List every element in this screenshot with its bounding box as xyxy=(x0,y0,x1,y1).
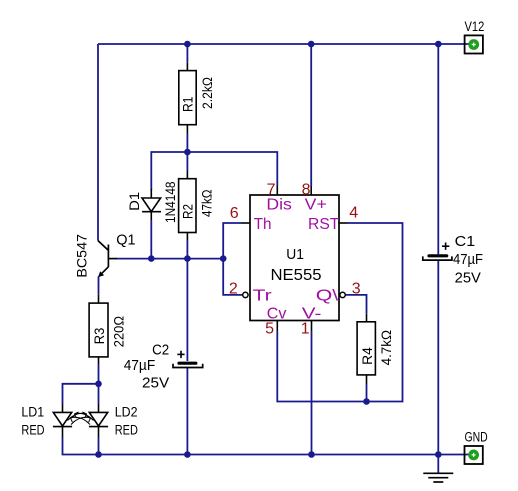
node C1 top junction xyxy=(435,41,442,48)
svg-text:8: 8 xyxy=(302,181,311,198)
svg-text:R1: R1 xyxy=(179,96,195,112)
node R4 bottom junction xyxy=(363,398,370,405)
svg-text:Tr: Tr xyxy=(253,288,273,305)
terminal V12 xyxy=(465,35,483,53)
node R1 bottom junction xyxy=(184,149,191,156)
resistor R4 xyxy=(357,313,375,383)
wire ground stem xyxy=(437,455,439,473)
wire left rail xyxy=(97,44,99,241)
capacitor C2 xyxy=(179,362,196,365)
resistor R3 xyxy=(89,295,108,364)
node C2 bottom junction xyxy=(184,451,191,458)
svg-text:6: 6 xyxy=(230,205,239,222)
node R2 base junction xyxy=(184,255,191,262)
ground symbol xyxy=(423,473,453,482)
pin 6 stub xyxy=(242,222,251,224)
resistor R1 xyxy=(179,62,196,134)
svg-text:1N4148: 1N4148 xyxy=(163,182,178,224)
svg-text:C1: C1 xyxy=(455,234,476,250)
terminal GND xyxy=(465,446,483,464)
node R3 LED junction xyxy=(95,381,102,388)
wire Th pin 6 xyxy=(223,223,242,295)
wire LED branch xyxy=(63,384,99,404)
transistor Q1 xyxy=(98,241,117,277)
wire pin 1 drop xyxy=(311,331,313,455)
wire R2 bottom xyxy=(186,240,188,259)
pin 5 stub xyxy=(276,321,278,332)
svg-text:R2: R2 xyxy=(179,204,195,219)
diode D1 xyxy=(142,189,161,220)
wire C1 bottom xyxy=(437,260,439,454)
svg-text:GND: GND xyxy=(465,430,488,445)
svg-text:BC547: BC547 xyxy=(74,234,90,278)
svg-text:Dis: Dis xyxy=(266,197,292,214)
wire emitter to R3 xyxy=(98,276,100,294)
pin 1 stub xyxy=(311,321,313,332)
wire R3 bottom xyxy=(98,364,100,384)
capacitor C1 xyxy=(429,254,447,257)
svg-text:5: 5 xyxy=(265,321,274,338)
op-amp U1 NE555 box xyxy=(250,195,339,321)
svg-text:RED: RED xyxy=(115,423,138,438)
svg-text:4.7kΩ: 4.7kΩ xyxy=(379,330,394,365)
wire bottom rail xyxy=(99,454,469,456)
wire Q out pin 3 xyxy=(345,295,366,313)
pin 2 bubble xyxy=(243,292,248,297)
wire C2 bottom xyxy=(186,368,188,455)
svg-text:LD2: LD2 xyxy=(115,405,138,420)
svg-text:220Ω: 220Ω xyxy=(112,316,127,347)
svg-text:47kΩ: 47kΩ xyxy=(200,190,215,218)
resistor R2 xyxy=(179,171,196,240)
svg-text:D1: D1 xyxy=(126,192,142,211)
node pin1 bottom junction xyxy=(308,451,315,458)
svg-text:C2: C2 xyxy=(152,343,169,359)
svg-text:47µF: 47µF xyxy=(124,358,156,374)
svg-text:Q\: Q\ xyxy=(316,288,339,305)
node Th base junction xyxy=(220,255,227,262)
node V+ junction xyxy=(308,41,315,48)
svg-text:2: 2 xyxy=(229,281,238,298)
svg-text:Q1: Q1 xyxy=(116,233,135,249)
svg-text:Th: Th xyxy=(254,216,272,233)
wire R4 bottom xyxy=(366,384,368,402)
svg-text:4: 4 xyxy=(349,205,358,222)
LED LD1 xyxy=(53,404,72,437)
svg-text:3: 3 xyxy=(352,280,361,297)
wire C2 top xyxy=(186,259,188,361)
LED LD2 xyxy=(89,404,108,437)
pin 8 stub xyxy=(310,186,312,195)
wire D1 bottom xyxy=(150,220,152,259)
wire R2 top xyxy=(186,152,188,171)
wire R1 bottom xyxy=(186,134,188,152)
wire LD1 bottom xyxy=(63,437,99,455)
wire mid horizontal xyxy=(151,152,277,190)
svg-text:R4: R4 xyxy=(359,347,375,365)
svg-text:7: 7 xyxy=(267,181,276,198)
pin 3 bubble xyxy=(340,292,345,297)
LED emission arrows xyxy=(68,412,94,425)
wire R1 top xyxy=(186,44,188,62)
svg-text:25V: 25V xyxy=(455,271,482,287)
svg-text:2.2kΩ: 2.2kΩ xyxy=(200,77,215,109)
svg-text:RST: RST xyxy=(308,216,340,233)
wire C1 top xyxy=(437,44,439,254)
svg-text:NE555: NE555 xyxy=(271,267,322,284)
svg-text:RED: RED xyxy=(21,423,44,438)
wire LD2 bottom xyxy=(98,437,100,455)
svg-text:V12: V12 xyxy=(465,19,485,34)
svg-text:V+: V+ xyxy=(305,197,327,214)
pin 7 stub xyxy=(276,186,278,195)
node C1 bottom junction xyxy=(435,451,442,458)
wire LD2 top xyxy=(98,384,100,404)
wire top rail xyxy=(98,43,469,45)
wire RST pin 4 xyxy=(277,223,402,402)
svg-text:LD1: LD1 xyxy=(21,405,44,420)
svg-text:R3: R3 xyxy=(91,328,107,345)
svg-text:1: 1 xyxy=(301,321,310,338)
svg-text:U1: U1 xyxy=(286,246,304,263)
svg-text:47µF: 47µF xyxy=(453,252,483,268)
pin 4 stub xyxy=(339,222,348,224)
svg-text:25V: 25V xyxy=(142,375,170,391)
node D1 base junction xyxy=(148,255,155,262)
wire V+ drop pin 8 xyxy=(310,44,312,186)
wire base horizontal xyxy=(117,258,224,260)
node R1 top junction xyxy=(184,41,191,48)
node LD2 bottom junction xyxy=(95,451,102,458)
